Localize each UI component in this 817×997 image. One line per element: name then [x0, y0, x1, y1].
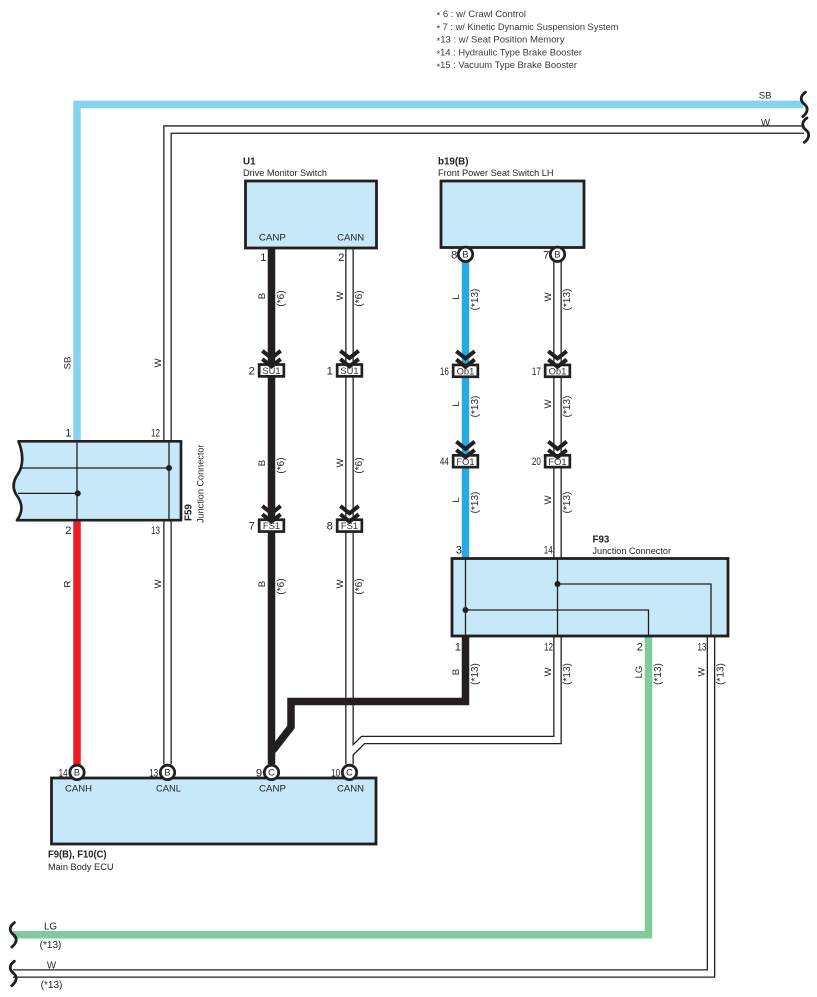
svg-text:W: W: [543, 399, 554, 409]
off-page squiggle SB right: [801, 92, 807, 116]
svg-text:3: 3: [456, 545, 462, 557]
arrow into FO1 (W): [548, 442, 566, 449]
connector SU1 pin2 (CANP): [259, 365, 284, 377]
svg-text:2: 2: [338, 252, 344, 264]
F93 junction dot left: [463, 607, 469, 613]
F59 internal SB line: [76, 441, 78, 520]
svg-text:B: B: [164, 768, 170, 778]
svg-text:1: 1: [260, 252, 266, 264]
svg-text:2: 2: [65, 525, 71, 537]
arrow into Ob1 (W): [548, 351, 566, 358]
svg-text:L: L: [451, 497, 462, 503]
svg-text:13: 13: [698, 642, 707, 654]
svg-text:Main Body ECU: Main Body ECU: [48, 862, 114, 873]
svg-text:12: 12: [544, 642, 553, 654]
svg-text:(*13): (*13): [562, 289, 573, 311]
svg-text:LG: LG: [44, 921, 57, 932]
connector FO1 pin44 (L): [453, 455, 478, 467]
arrow into FS1 (CANN): [340, 506, 358, 513]
svg-text:2: 2: [637, 642, 643, 654]
svg-text:B: B: [257, 581, 268, 587]
svg-text:B: B: [451, 669, 462, 675]
wire W F59 pin13 to ECU pin13 (core): [165, 520, 171, 764]
svg-text:* 7 : w/ Kinetic Dynamic Suspe: * 7 : w/ Kinetic Dynamic Suspension Syst…: [437, 22, 619, 35]
svg-text:(*6): (*6): [276, 578, 287, 594]
wire W F93 pin13 to bottom edge (band): [13, 636, 711, 974]
svg-text:B: B: [554, 250, 560, 260]
svg-text:(*13): (*13): [653, 663, 664, 685]
svg-text:13: 13: [151, 525, 160, 537]
wire W CANN U1 pin2 to ECU pin10 (core): [347, 248, 353, 764]
F93 internal line pin3-pin1: [465, 559, 467, 637]
component Main Body ECU F9(B),F10(C): [52, 778, 377, 844]
connector SU1 pin1 (CANN): [337, 365, 362, 377]
F59 junction dot lower: [75, 490, 81, 496]
connector FS1 pin8 (CANN): [337, 520, 362, 532]
svg-text:(*6): (*6): [276, 290, 287, 306]
svg-text:(*13): (*13): [562, 396, 573, 418]
F93 junction dot right: [555, 581, 561, 587]
svg-text:R: R: [63, 580, 74, 587]
off-page squiggle W right: [803, 118, 809, 142]
pin 7 (B) b19: [550, 247, 564, 261]
pin 14 (B) ECU CANH: [70, 765, 84, 779]
svg-text:(*13): (*13): [470, 663, 481, 685]
junction connector F59: [14, 441, 181, 520]
svg-text:Junction Connector: Junction Connector: [593, 546, 672, 557]
arrow into FS1 (CANP): [262, 506, 280, 513]
svg-text:B: B: [462, 250, 468, 260]
arrow into FO1 (L): [456, 442, 474, 449]
svg-text:C: C: [268, 768, 275, 778]
connector FO1 pin20 (W): [545, 455, 570, 467]
pin 13 (B) ECU CANL: [160, 765, 174, 779]
off-page squiggle W bottom-left: [10, 961, 16, 985]
svg-text:17: 17: [532, 366, 541, 378]
F59 internal bus bar upper: [21, 467, 169, 469]
wire L b19 pin8 to F93 pin3: [462, 261, 470, 559]
svg-text:U1: U1: [243, 157, 256, 168]
svg-text:B: B: [257, 293, 268, 299]
svg-text:B: B: [257, 460, 268, 466]
svg-text:10: 10: [331, 768, 340, 780]
wire W b19 pin7 to F93 pin14 (core): [555, 261, 561, 559]
svg-text:16: 16: [440, 366, 449, 378]
wire B CANP U1 pin1 to ECU pin9: [268, 248, 276, 764]
svg-text:* 6 : w/ Crawl Control: * 6 : w/ Crawl Control: [437, 9, 527, 22]
svg-text:CANH: CANH: [65, 783, 92, 794]
junction connector F93: [452, 559, 728, 637]
svg-text:W: W: [335, 579, 346, 589]
svg-text:*13 : w/ Seat Position Memory: *13 : w/ Seat Position Memory: [437, 35, 565, 48]
wire LG F93 pin2 to bottom edge: [13, 636, 649, 935]
component U1 Drive Monitor Switch: [246, 181, 377, 248]
wire W CANN U1 pin2 to ECU pin10 (band): [345, 248, 354, 764]
pin 9 (C) ECU CANP: [264, 765, 278, 779]
svg-text:(*13): (*13): [715, 663, 726, 685]
arrow into SU1 (CANN): [340, 351, 358, 358]
svg-text:(*13): (*13): [470, 492, 481, 514]
connector Ob1 pin16 (L): [453, 365, 478, 377]
svg-text:7: 7: [543, 250, 549, 262]
F59 internal W line: [168, 441, 170, 520]
wire B F93 pin1 jog to CANP: [273, 636, 466, 751]
wire R F59 pin2 to ECU pin14: [73, 520, 81, 764]
svg-text:SB: SB: [759, 91, 772, 102]
svg-text:2: 2: [249, 365, 255, 377]
wire W F93 pin12 jog to CANN (core): [350, 636, 557, 753]
component b19(B) Front Power Seat Switch LH: [441, 181, 584, 248]
connector FS1 pin7 (CANP): [259, 520, 284, 532]
svg-text:(*13): (*13): [470, 289, 481, 311]
pin 10 (C) ECU CANN: [342, 765, 356, 779]
svg-text:8: 8: [451, 250, 457, 262]
svg-text:L: L: [451, 294, 462, 300]
svg-text:W: W: [335, 291, 346, 301]
svg-text:1: 1: [65, 428, 71, 440]
svg-text:B: B: [74, 768, 80, 778]
svg-text:13: 13: [149, 768, 158, 780]
svg-text:C: C: [346, 768, 353, 778]
svg-text:(*6): (*6): [354, 457, 365, 473]
svg-text:(*13): (*13): [562, 663, 573, 685]
svg-text:Drive Monitor Switch: Drive Monitor Switch: [243, 168, 327, 179]
svg-text:CANP: CANP: [259, 783, 286, 794]
svg-text:W: W: [543, 667, 554, 677]
svg-text:20: 20: [532, 456, 541, 468]
F59 junction dot upper: [166, 465, 172, 471]
svg-text:(*6): (*6): [276, 457, 287, 473]
wire W F59 pin13 to ECU pin13 (band): [163, 520, 172, 764]
svg-text:SB: SB: [63, 357, 74, 370]
svg-text:CANN: CANN: [337, 233, 364, 244]
wire W F93 pin12 jog to CANN (band): [350, 636, 557, 753]
svg-text:(*13): (*13): [470, 396, 481, 418]
svg-text:Front Power Seat Switch LH: Front Power Seat Switch LH: [438, 168, 554, 179]
note legend *6..*15: [437, 9, 619, 73]
svg-text:(*13): (*13): [562, 492, 573, 514]
F93 internal line pin14-pin12: [557, 559, 559, 637]
F59 internal bus bar lower: [18, 492, 78, 494]
svg-text:W: W: [47, 960, 57, 971]
svg-text:14: 14: [59, 768, 68, 780]
wire SB bus top-left to F59 pin1: [77, 104, 803, 441]
svg-text:L: L: [451, 401, 462, 407]
svg-text:W: W: [761, 117, 771, 128]
svg-text:b19(B): b19(B): [438, 157, 468, 168]
svg-text:8: 8: [327, 521, 333, 533]
svg-text:(*13): (*13): [40, 940, 62, 951]
svg-text:F93: F93: [593, 535, 610, 546]
svg-text:1: 1: [455, 642, 461, 654]
svg-text:W: W: [335, 458, 346, 468]
wire W b19 pin7 to F93 pin14 (band): [553, 261, 562, 559]
svg-text:14: 14: [544, 545, 553, 557]
F93 internal branch to pin2: [466, 610, 649, 636]
svg-text:LG: LG: [634, 666, 645, 679]
connector Ob1 pin17 (W): [545, 365, 570, 377]
svg-text:CANL: CANL: [156, 783, 182, 794]
svg-text:9: 9: [256, 768, 262, 780]
svg-text:Junction Connector: Junction Connector: [196, 444, 207, 523]
wire W bus top (core): [168, 130, 806, 442]
svg-text:W: W: [543, 292, 554, 302]
svg-text:*14 : Hydraulic Type Brake Boo: *14 : Hydraulic Type Brake Booster: [437, 47, 583, 60]
svg-text:(*6): (*6): [354, 578, 365, 594]
svg-text:(*6): (*6): [354, 290, 365, 306]
F93 internal branch to pin13: [558, 584, 712, 636]
arrow into SU1 (CANP): [262, 351, 280, 358]
svg-text:CANP: CANP: [259, 233, 286, 244]
off-page squiggle LG bottom-left: [10, 923, 16, 947]
svg-text:W: W: [153, 358, 164, 368]
svg-text:W: W: [543, 495, 554, 505]
svg-text:*15 : Vacuum Type Brake Booste: *15 : Vacuum Type Brake Booster: [437, 60, 578, 73]
svg-text:12: 12: [151, 428, 160, 440]
svg-text:W: W: [153, 579, 164, 589]
svg-text:F9(B), F10(C): F9(B), F10(C): [48, 850, 107, 861]
svg-text:(*13): (*13): [41, 980, 63, 991]
svg-text:7: 7: [249, 521, 255, 533]
wire W F93 pin13 to bottom edge (core): [13, 636, 711, 974]
arrow into Ob1 (L): [456, 351, 474, 358]
svg-text:1: 1: [327, 365, 333, 377]
svg-text:CANN: CANN: [337, 783, 364, 794]
svg-text:W: W: [696, 667, 707, 677]
svg-text:44: 44: [440, 456, 449, 468]
svg-text:F59: F59: [184, 504, 195, 521]
wire W bus top (band): [168, 130, 805, 442]
pin 8 (B) b19: [458, 247, 472, 261]
